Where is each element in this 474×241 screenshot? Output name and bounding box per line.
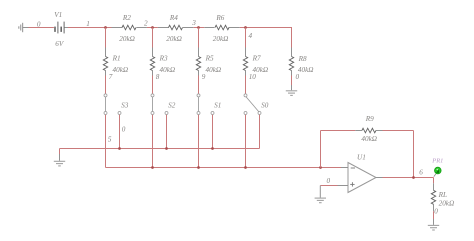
wire R4 to node3 — [193, 27, 204, 29]
wire node 6 to RL — [433, 178, 435, 184]
wire output node 6 — [383, 177, 434, 179]
svg-text:0: 0 — [122, 125, 126, 133]
wire S2 left throw to node5 bus — [152, 115, 154, 168]
wire R5 to switch — [198, 76, 200, 94]
junction node 2 — [151, 26, 154, 29]
svg-text:PR1: PR1 — [431, 158, 443, 165]
junction S2 ground — [165, 147, 168, 150]
svg-text:4: 4 — [249, 32, 253, 40]
svg-text:2: 2 — [144, 20, 148, 28]
svg-text:0: 0 — [37, 20, 41, 28]
resistor R5 — [198, 28, 200, 48]
wire node 4 to R8 — [291, 27, 293, 48]
wire node 1 — [68, 27, 106, 29]
svg-text:R1: R1 — [112, 55, 121, 63]
wire ground to V1 — [29, 27, 54, 29]
svg-text:9: 9 — [202, 73, 206, 81]
svg-text:R2: R2 — [122, 14, 131, 22]
svg-text:S1: S1 — [214, 101, 221, 109]
resistor R6 — [204, 27, 214, 29]
probe PR1 — [434, 174, 436, 177]
ground (R8) — [286, 90, 297, 92]
svg-text:R4: R4 — [169, 14, 178, 22]
svg-text:R3: R3 — [159, 55, 168, 63]
svg-text:20kΩ: 20kΩ — [213, 35, 229, 43]
svg-text:0: 0 — [434, 207, 438, 215]
svg-text:U1: U1 — [357, 154, 366, 162]
svg-text:6V: 6V — [55, 40, 65, 48]
wire node 5 bus — [106, 167, 342, 169]
wire R9 to node6 — [383, 130, 414, 132]
svg-text:S2: S2 — [168, 101, 176, 109]
ground (op-amp +) — [315, 197, 326, 199]
svg-text:5: 5 — [108, 136, 112, 144]
resistor R1 — [105, 28, 107, 48]
svg-text:40kΩ: 40kΩ — [113, 66, 129, 74]
svg-text:40kΩ: 40kΩ — [361, 135, 377, 143]
wire S3 left throw to node5 bus — [105, 115, 107, 168]
resistor R7 — [245, 28, 247, 48]
ground (RL) — [428, 224, 439, 226]
svg-text:10: 10 — [249, 73, 257, 81]
resistor R2 — [112, 27, 123, 29]
svg-text:1: 1 — [86, 20, 90, 28]
resistor R9 — [355, 130, 362, 132]
svg-text:R9: R9 — [365, 115, 374, 123]
svg-text:20kΩ: 20kΩ — [119, 35, 135, 43]
svg-text:7: 7 — [109, 73, 113, 81]
wire S1 right throw to ground bus — [212, 115, 214, 149]
junction S2 node5 — [151, 166, 154, 169]
svg-text:R7: R7 — [252, 55, 261, 63]
wire R6 to node4 to R8 — [240, 27, 292, 29]
wire node1 to R2 — [106, 27, 112, 29]
svg-text:6: 6 — [419, 169, 423, 177]
resistor R3 — [152, 28, 154, 48]
resistor R8 — [291, 48, 293, 57]
junction node 4 — [244, 26, 247, 29]
junction node 1 — [104, 26, 107, 29]
wire S1 left throw to node5 bus — [198, 115, 200, 168]
svg-text:8: 8 — [156, 73, 160, 81]
junction S0 node5 — [244, 166, 247, 169]
wire R3 to switch — [152, 76, 154, 94]
switch S3 — [105, 97, 107, 112]
svg-text:S0: S0 — [261, 101, 269, 109]
op-amp output pin — [376, 177, 383, 179]
wire S0 right throw to ground bus — [259, 115, 261, 149]
junction node 3 — [197, 26, 200, 29]
wire op-amp plus input — [320, 185, 337, 187]
junction feedback node5 — [319, 166, 322, 169]
svg-text:3: 3 — [191, 19, 196, 27]
svg-text:R5: R5 — [205, 55, 214, 63]
battery V1 — [64, 27, 68, 29]
svg-text:20kΩ: 20kΩ — [439, 199, 455, 207]
wire ground bus — [60, 148, 260, 150]
svg-text:V1: V1 — [54, 11, 62, 19]
svg-text:S3: S3 — [121, 101, 129, 109]
ground (bus) — [54, 160, 65, 162]
svg-text:20kΩ: 20kΩ — [166, 35, 182, 43]
wire S2 right throw to ground bus — [166, 115, 168, 149]
svg-text:40kΩ: 40kΩ — [160, 66, 176, 74]
svg-text:40kΩ: 40kΩ — [206, 66, 222, 74]
wire R1 to switch — [105, 76, 107, 94]
junction S1 ground — [211, 147, 214, 150]
svg-text:RL: RL — [438, 191, 447, 199]
resistor R4 — [158, 27, 169, 29]
svg-text:40kΩ: 40kΩ — [298, 66, 314, 74]
wire R7 to switch — [245, 76, 247, 94]
junction S1 node5 — [197, 166, 200, 169]
wire S3 right throw to ground bus — [119, 115, 121, 149]
wire S0 left throw to node5 bus — [245, 115, 247, 168]
resistor RL — [433, 183, 435, 190]
switch S2 — [152, 97, 154, 112]
switch S1 — [198, 97, 200, 112]
wire R2 to node2 — [147, 27, 158, 29]
wire feedback right — [413, 131, 415, 178]
wire feedback left — [320, 131, 322, 168]
switch S0 — [246, 97, 259, 112]
svg-text:0: 0 — [296, 73, 300, 81]
ground (left of V1) — [22, 23, 24, 32]
svg-text:R8: R8 — [298, 55, 307, 63]
op-amp U1 — [348, 163, 376, 193]
junction S3 ground — [118, 147, 121, 150]
svg-text:0: 0 — [327, 177, 331, 185]
svg-text:R6: R6 — [215, 14, 224, 22]
wire RL to ground — [433, 211, 435, 219]
wire node5 to R9 — [321, 130, 356, 132]
wire R8 to ground — [291, 76, 293, 86]
junction node 6 — [412, 176, 415, 179]
